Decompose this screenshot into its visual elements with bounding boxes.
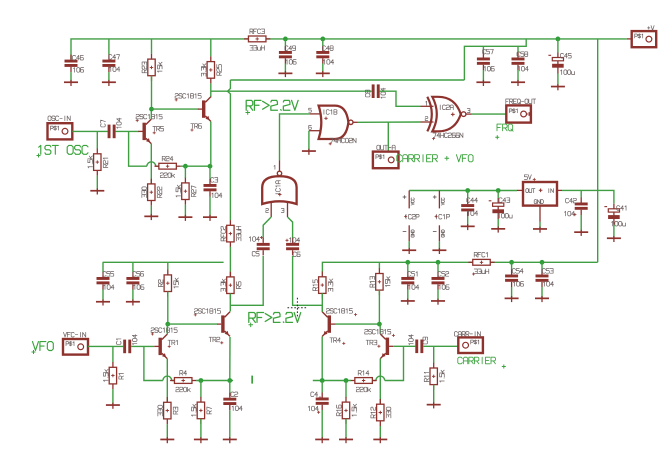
resistor R1 bbox=[103, 346, 123, 389]
wire R13 to TR4 base node bbox=[378, 290, 380, 324]
wire C46 to ground bbox=[70, 72, 72, 81]
ground C47 bbox=[102, 80, 116, 86]
wire IC1A pin2 to C5 bbox=[263, 217, 271, 238]
capacitor C52 bbox=[432, 262, 450, 289]
ground C56 bbox=[126, 299, 140, 305]
wire C54 to ground bbox=[511, 287, 513, 298]
wire R23 to TR5 collector node bbox=[151, 76, 153, 109]
wire C1 to TR1 base bbox=[131, 345, 154, 347]
label OSC-IN bbox=[48, 116, 70, 121]
inductor RFC2 bbox=[221, 220, 241, 247]
wire lower rail left bbox=[103, 261, 224, 263]
wire RF vertical with jog bbox=[228, 80, 231, 220]
pin 3 label IC2A bbox=[467, 109, 470, 113]
regulator 5V 78L05 bbox=[517, 175, 562, 222]
resistor R14 bbox=[350, 371, 376, 392]
wire C8 to IC2A pin 1 bbox=[380, 91, 421, 106]
pin 2 label IC1A bbox=[266, 208, 269, 212]
resistor R3 bbox=[158, 397, 178, 424]
capacitor C9 bbox=[409, 335, 428, 353]
wire regulator IN to C41 bbox=[562, 190, 614, 203]
wire RFC2 to R5 bbox=[229, 247, 231, 277]
wire C42 to ground bbox=[580, 215, 582, 231]
wire C4 to ground bbox=[321, 410, 323, 439]
wire +V top rail bbox=[71, 39, 627, 60]
wire TR5 emitter down bbox=[150, 144, 152, 184]
ground C42 bbox=[574, 230, 588, 236]
ground R12 bbox=[373, 437, 387, 443]
hop over TR1 emitter bbox=[163, 376, 172, 380]
wire R27 to ground bbox=[184, 205, 186, 217]
wire IC2A output to FREQ-OUT bbox=[472, 113, 507, 115]
junction C52 bbox=[436, 260, 441, 265]
capacitor C8 bbox=[365, 84, 385, 98]
ground C45 bbox=[551, 84, 565, 90]
junction R16 bbox=[344, 378, 349, 383]
ground C44 bbox=[461, 224, 475, 230]
ground C43 bbox=[491, 227, 505, 233]
power pin IC2P GND bbox=[403, 225, 414, 249]
wire C2 to ground bbox=[229, 410, 231, 438]
gate IC1A 74AC02 NOR (pointing up) bbox=[262, 171, 296, 204]
capacitor C3 bbox=[204, 166, 222, 197]
wire TR1 collector to node bbox=[166, 324, 168, 334]
capacitor C4 bbox=[308, 381, 328, 414]
label VFC-IN bbox=[64, 332, 86, 337]
net label I bbox=[251, 376, 253, 384]
wire TR1 base feedback down bbox=[144, 346, 163, 380]
wire C3 to ground bbox=[209, 197, 211, 217]
capacitor C2 bbox=[223, 381, 242, 411]
pin IC2A output bbox=[466, 113, 472, 115]
wire TR3 base to C9 bbox=[393, 345, 415, 347]
wire TR5 base feedback down bbox=[129, 131, 147, 166]
pin 6 label IC1B bbox=[309, 125, 312, 129]
wire C41 to ground bbox=[613, 225, 615, 238]
label CARR-IN bbox=[454, 332, 480, 337]
net label CARRIER + VFO bbox=[397, 155, 473, 162]
ground R22 bbox=[144, 214, 158, 220]
cursor crosshair bbox=[288, 298, 308, 318]
transistor TR2 2SC1815 bbox=[194, 309, 230, 345]
wire C43 to ground bbox=[497, 219, 499, 228]
ground R3 bbox=[160, 437, 174, 443]
wire TR3 base feedback down bbox=[385, 346, 404, 380]
power pin IC2P VCC bbox=[403, 191, 419, 220]
wire TR5 collector node to TR6 base bbox=[152, 108, 199, 110]
wire C49 to ground bbox=[284, 64, 286, 73]
wire R5 to TR2 collector bbox=[229, 294, 231, 312]
wire regulator GND to ground bbox=[539, 222, 541, 228]
wire C44 to ground bbox=[467, 217, 469, 226]
capacitor C53 bbox=[536, 262, 554, 287]
wire hop to R4 bbox=[172, 380, 175, 382]
wire C57 C58 branch from rail bbox=[464, 39, 526, 80]
resistor R25 bbox=[201, 39, 221, 84]
net label FRQ bbox=[497, 124, 513, 131]
capacitor C49 bbox=[279, 39, 296, 64]
resistor R22 bbox=[142, 179, 162, 206]
port FREQ-OUT bbox=[506, 105, 531, 122]
pin 5 label IC1B bbox=[309, 108, 312, 112]
wire R24 to junctions bbox=[181, 165, 210, 167]
wire TR2 emitter down to C2 node bbox=[229, 337, 231, 381]
wire R7 to ground bbox=[200, 419, 202, 439]
wire RF top horizontal bbox=[230, 79, 464, 81]
resistor R11 bbox=[424, 346, 444, 390]
wire lower rail right bbox=[322, 262, 597, 272]
wire TR6 emitter down bbox=[210, 121, 212, 166]
wire TR3 emitter down bbox=[379, 359, 381, 404]
resistor R16 bbox=[337, 381, 357, 424]
wire VFC-IN to C1 bbox=[88, 345, 123, 347]
junction C49 on +V rail bbox=[283, 37, 288, 42]
ground C57 bbox=[476, 80, 490, 86]
transistor TR4 2SC1815 (mirrored) bbox=[322, 309, 357, 345]
ground C41 bbox=[607, 236, 621, 242]
ground C2 bbox=[223, 437, 237, 443]
label FREQ-OUT bbox=[506, 99, 536, 104]
power pin IC1P VCC bbox=[433, 191, 450, 220]
resistor R5 bbox=[221, 272, 241, 299]
wire C58 to ground bbox=[517, 70, 519, 81]
junction C43 bbox=[496, 188, 501, 193]
transistor TR5 2SC1815 bbox=[136, 114, 164, 143]
port OUT-A bbox=[373, 152, 399, 169]
pin 3 label IC1A bbox=[281, 208, 284, 212]
junction C53 bbox=[540, 260, 545, 265]
capacitor C48 bbox=[316, 39, 333, 64]
wire C56 to ground bbox=[132, 290, 134, 301]
wire TR2 base bbox=[168, 323, 217, 325]
wire C51 to ground bbox=[407, 290, 409, 301]
capacitor C58 bbox=[512, 46, 529, 71]
capacitor C57 bbox=[477, 46, 494, 71]
wire branch to OUT-A port bbox=[387, 122, 389, 151]
wire R25 to TR6 collector bbox=[210, 83, 212, 97]
ground C48 bbox=[316, 71, 330, 77]
wire TR4 base bbox=[335, 323, 380, 325]
capacitor C44 bbox=[461, 191, 478, 217]
pin IC2A input 1 bbox=[421, 105, 434, 107]
ground C53 bbox=[535, 296, 549, 302]
resistor R12 bbox=[371, 399, 391, 426]
wire C45 to ground bbox=[557, 74, 559, 86]
wire R15 to TR4 collector bbox=[321, 293, 323, 312]
pin IC1B input 6 bbox=[309, 130, 321, 132]
wire R1 to ground bbox=[112, 389, 114, 404]
resistor R13 bbox=[370, 262, 390, 295]
net label RF>2.2V bottom bbox=[249, 313, 301, 323]
capacitor C7 bbox=[101, 118, 122, 138]
pin IC1B output bbox=[353, 121, 358, 123]
junction C2 / TR2 emitter bbox=[227, 378, 232, 383]
pin IC1A input 3 bbox=[287, 202, 289, 217]
wire C55 to ground bbox=[102, 290, 104, 301]
wire C9 to CARR-IN bbox=[423, 345, 458, 347]
resistor R23 bbox=[142, 39, 162, 81]
wire TR4 collector up bbox=[321, 305, 323, 312]
net label RF>2.2V top bbox=[246, 100, 298, 110]
net label CARRIER bbox=[458, 357, 496, 364]
wire C53 to ground bbox=[541, 287, 543, 298]
wire C5 bottom to TR2 collector bbox=[230, 256, 263, 305]
hop over TR3 emitter bbox=[376, 376, 385, 380]
ground R27 bbox=[178, 215, 192, 221]
pin 2 label IC2A bbox=[425, 117, 428, 121]
wire OSC-IN to C7 bbox=[72, 130, 107, 132]
transistor TR1 2SC1815 bbox=[151, 328, 177, 359]
port VFC-IN bbox=[63, 339, 88, 355]
ground R7 bbox=[194, 437, 208, 443]
wire IC1B pin6 to ground bbox=[308, 131, 310, 151]
wire C48 to ground bbox=[322, 64, 324, 73]
wire TR1 emitter down bbox=[166, 359, 168, 403]
wire R3 to ground bbox=[166, 424, 168, 439]
junction C51 bbox=[405, 260, 410, 265]
ground C58 bbox=[511, 80, 525, 86]
ground C3 bbox=[203, 215, 217, 221]
wire IC1A pin1 output up to IC1B pin5 bbox=[279, 161, 281, 172]
pin 1 label IC1A bbox=[273, 165, 276, 169]
wire TR6 collector output to C8 bbox=[211, 90, 372, 92]
wire hop to R24 bbox=[156, 165, 159, 167]
resistor R21 bbox=[88, 131, 108, 175]
wire R21 to ground bbox=[96, 176, 98, 190]
pin IC1A input 2 bbox=[270, 202, 272, 217]
wire +V rail red pin to port bbox=[627, 38, 632, 40]
wire R4 to junctions net I bbox=[196, 380, 233, 382]
pin IC1B input 5 bbox=[309, 113, 320, 115]
wire C52 to ground bbox=[437, 290, 439, 301]
gate IC1B 74AC02 NOR (pointing right) bbox=[319, 106, 356, 146]
wire IC1A pin3 to C6 bbox=[288, 217, 293, 238]
resistor R7 bbox=[191, 381, 211, 424]
transistor TR6 2SC1815 bbox=[175, 94, 211, 132]
capacitor C5 bbox=[249, 236, 269, 256]
transistor TR3 2SC1815 (mirrored) bbox=[365, 329, 395, 358]
port CARR-IN bbox=[458, 337, 483, 353]
resistor R27 bbox=[176, 166, 196, 205]
capacitor C55 bbox=[97, 262, 115, 289]
ground C4 bbox=[315, 437, 329, 443]
ground C54 bbox=[505, 296, 519, 302]
capacitor C43 electrolytic bbox=[489, 191, 512, 220]
port +V bbox=[632, 31, 657, 47]
inductor RFC1 bbox=[468, 252, 494, 275]
ground IC1B pin6 bbox=[302, 149, 316, 155]
wire TR5 collector to node bbox=[150, 109, 152, 119]
junction C45 on +V rail bbox=[556, 37, 561, 42]
wire hop to R14 bbox=[372, 380, 376, 382]
junction R13 / TR4 base / TR3 collector bbox=[377, 322, 382, 327]
gate IC2A 74HC266 XNOR (pointing right) bbox=[427, 97, 466, 140]
resistor R24 bbox=[154, 156, 180, 177]
ground R1 bbox=[106, 403, 120, 409]
power pin IC1P GND bbox=[433, 225, 444, 249]
wire R16 to ground bbox=[345, 419, 347, 439]
wire IC power rail bbox=[409, 190, 517, 192]
capacitor C54 bbox=[505, 262, 523, 287]
pin IC2A input 2 bbox=[421, 121, 434, 123]
resistor R2 bbox=[158, 262, 178, 296]
net label VFO bbox=[33, 342, 54, 351]
capacitor C42 bbox=[565, 190, 588, 216]
junction TR5 collector / R23 bbox=[149, 107, 154, 112]
inductor RFC3 bbox=[244, 29, 270, 50]
capacitor C45 electrolytic bbox=[548, 39, 574, 75]
ground R21 bbox=[90, 188, 104, 194]
ground IC1P bbox=[432, 248, 446, 254]
net label 1ST OSC bbox=[39, 145, 88, 154]
ground C49 bbox=[278, 71, 292, 77]
resistor R15 bbox=[313, 272, 333, 299]
wire C7 to TR5 base bbox=[116, 130, 139, 132]
ground C51 bbox=[401, 299, 415, 305]
wire R11 to ground bbox=[433, 385, 435, 404]
junction C44 bbox=[465, 188, 470, 193]
capacitor C6 bbox=[286, 238, 301, 257]
junction TR1 collector / R2 / TR2 base bbox=[165, 322, 170, 327]
junction R27 bbox=[183, 164, 188, 169]
ground C46 bbox=[64, 80, 78, 86]
label OUT-A bbox=[377, 145, 395, 150]
resistor R4 bbox=[170, 371, 196, 392]
capacitor C47 bbox=[102, 39, 119, 72]
capacitor C51 bbox=[401, 262, 419, 289]
ground regulator bbox=[533, 227, 547, 233]
capacitor C41 electrolytic bbox=[604, 204, 626, 226]
label +V bbox=[648, 26, 655, 31]
wire TR4 emitter down bbox=[321, 337, 323, 381]
capacitor C1 bbox=[116, 335, 137, 354]
ground IC2P bbox=[402, 248, 416, 254]
ground R11 bbox=[427, 402, 441, 408]
junction C4 / TR4 emitter bbox=[320, 378, 325, 383]
wire C6 bottom to TR4 collector bbox=[293, 256, 323, 305]
wire C57 to ground bbox=[482, 70, 484, 81]
ground C55 bbox=[96, 299, 110, 305]
port OSC-IN bbox=[48, 123, 73, 139]
pin 1 label IC2A bbox=[425, 101, 428, 105]
junction C48 on +V rail bbox=[320, 37, 325, 42]
wire R2 to TR1 collector node bbox=[167, 292, 169, 325]
wire R14 to junctions net I right bbox=[313, 380, 351, 382]
wire IC1B output to IC2A pin2 bbox=[358, 121, 421, 123]
hop over TR5 emitter bbox=[147, 162, 156, 166]
junction R7 bbox=[199, 378, 204, 383]
junction C54 bbox=[509, 260, 514, 265]
capacitor C46 bbox=[65, 55, 84, 73]
wire R22 to ground bbox=[150, 206, 152, 216]
junction C3 / TR6 emitter bbox=[208, 164, 213, 169]
wire +V vertical feed to lower rail bbox=[597, 39, 599, 262]
wire C47 to ground bbox=[108, 72, 110, 81]
capacitor C56 bbox=[126, 262, 144, 289]
wire TR3 collector up bbox=[379, 324, 381, 334]
ground R16 bbox=[339, 437, 353, 443]
ground C52 bbox=[431, 299, 445, 305]
wire R12 to ground bbox=[379, 426, 381, 439]
